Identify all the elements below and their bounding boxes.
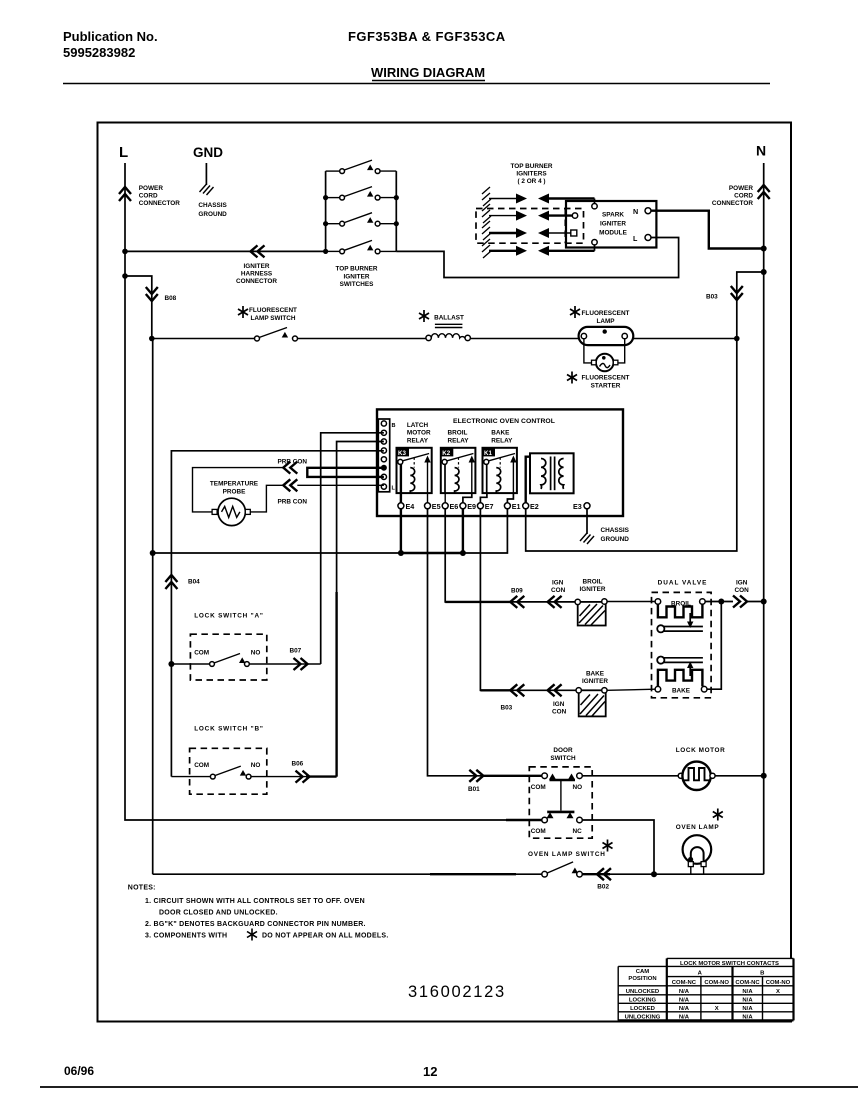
svg-text:A: A (698, 971, 703, 977)
spark igniter module box (566, 201, 656, 248)
svg-text:IGNITERS: IGNITERS (516, 171, 547, 178)
svg-text:X: X (776, 989, 780, 995)
wire valve outputs tie (705, 602, 733, 690)
lock switch B (171, 766, 336, 779)
asterisk ballast (419, 310, 429, 322)
wire E4 down to bus (400, 509, 402, 553)
diagram border (98, 123, 792, 1022)
svg-text:COM-NC: COM-NC (672, 980, 697, 986)
junction B03 branch on N rail (761, 269, 767, 275)
EOC terminal E5 (425, 503, 431, 509)
svg-text:BROIL: BROIL (671, 600, 691, 607)
lock switch A (171, 654, 320, 667)
wire switch to B02 (582, 873, 610, 875)
svg-text:RELAY: RELAY (448, 437, 470, 444)
chassis ground symbol top (200, 184, 214, 195)
svg-text:WIRING DIAGRAM: WIRING DIAGRAM (371, 65, 485, 80)
svg-text:E3: E3 (573, 502, 582, 511)
asterisk oven lamp switch (603, 840, 613, 852)
footer rule (40, 1086, 858, 1088)
svg-text:B08: B08 (165, 295, 177, 302)
backguard connector B07 chevron (294, 658, 308, 670)
EOC terminal E7 (477, 503, 483, 509)
dashed divider spark module connector (564, 209, 566, 244)
wire E1 down then left: main bus (153, 509, 508, 553)
svg-text:RELAY: RELAY (407, 437, 429, 444)
top burner igniter switch 4 (326, 240, 397, 253)
svg-text:B: B (392, 423, 396, 429)
svg-text:TOP BURNER: TOP BURNER (510, 163, 552, 170)
svg-text:B03: B03 (706, 294, 718, 301)
top burner igniter switch 3 (326, 213, 397, 226)
svg-text:UNLOCKING: UNLOCKING (625, 1015, 661, 1021)
svg-text:FLUORESCENT: FLUORESCENT (582, 310, 630, 317)
svg-text:B01: B01 (468, 786, 480, 793)
svg-text:TEMPERATURE: TEMPERATURE (210, 481, 259, 488)
power cord connector L chevron (119, 187, 131, 201)
spark module terminal row1 (592, 204, 597, 209)
fluorescent lamp (579, 327, 634, 345)
wire oven lamp line (153, 873, 542, 875)
svg-text:06/96: 06/96 (64, 1064, 94, 1078)
wire E5 to door switch COM (428, 509, 542, 776)
top burner igniter switch 2 (326, 187, 397, 200)
lock motor switch contacts table (618, 958, 793, 1020)
EOC terminal E4 (398, 503, 404, 509)
svg-text:B04: B04 (188, 579, 200, 586)
svg-text:CON: CON (735, 587, 750, 594)
svg-text:12: 12 (423, 1064, 437, 1079)
backguard connector B02 chevron (597, 868, 611, 880)
oven lamp (683, 835, 712, 874)
door switch dashed box (529, 767, 592, 838)
EOC terminal strip (378, 419, 395, 492)
dual valve bake plunger (657, 657, 703, 664)
svg-text:PRB CON: PRB CON (278, 459, 308, 466)
svg-text:B02: B02 (597, 884, 609, 891)
spark module terminal row4 (592, 240, 597, 245)
svg-text:K1: K1 (484, 450, 492, 457)
svg-text:COM: COM (531, 784, 546, 791)
svg-text:DUAL VALVE: DUAL VALVE (658, 580, 708, 587)
svg-text:LOCKED: LOCKED (630, 1006, 655, 1012)
svg-text:FLUORESCENT: FLUORESCENT (582, 375, 630, 382)
svg-text:CORD: CORD (734, 193, 753, 200)
dashed box optional igniters (476, 209, 584, 244)
EOC terminal E1 (504, 503, 510, 509)
chassis ground symbol E3 (580, 533, 594, 544)
wire E6 to broil igniter line (445, 509, 578, 602)
svg-text:LOCKING: LOCKING (629, 998, 657, 1004)
wire t4 to lock switches supply B04 (171, 451, 384, 777)
svg-text:FGF353BA & FGF353CA: FGF353BA & FGF353CA (348, 29, 506, 44)
svg-text:NO: NO (251, 650, 261, 657)
svg-text:E9: E9 (467, 502, 476, 511)
svg-text:LATCH: LATCH (407, 422, 429, 429)
rail junction dots (323, 195, 328, 200)
svg-text:1. CIRCUIT SHOWN WITH ALL CONT: 1. CIRCUIT SHOWN WITH ALL CONTROLS SET T… (145, 898, 365, 905)
wire B02 to N rail corner (610, 873, 764, 875)
door switch upper pole (542, 773, 583, 780)
igniter connector IGN CON chevron output (733, 596, 747, 608)
wire row4 to spark module L (396, 238, 678, 278)
dual valve broil solenoid (655, 599, 705, 628)
spark module terminal row2 (572, 213, 577, 218)
svg-text:BROIL: BROIL (583, 579, 603, 586)
top burner igniter switches right rail (395, 171, 397, 251)
svg-text:5995283982: 5995283982 (63, 45, 135, 60)
wire L rail vertical down to door-switch bottom line (125, 163, 542, 820)
svg-text:N: N (633, 207, 638, 216)
svg-text:IGNITER: IGNITER (582, 678, 608, 685)
wire spark module N to N rail (651, 211, 764, 249)
probe connector PRB CON upper chevron (283, 462, 297, 474)
svg-text:X: X (715, 1006, 719, 1012)
top burner igniter 4 (482, 239, 595, 258)
svg-text:N/A: N/A (742, 998, 753, 1004)
svg-text:BAKE: BAKE (586, 670, 605, 677)
svg-text:CAM: CAM (636, 969, 650, 975)
svg-text:E7: E7 (485, 502, 494, 511)
backguard connector B04 chevron (165, 575, 177, 589)
junction bus x E4 (398, 550, 404, 556)
backguard connector B03 chevron bake (510, 684, 524, 696)
svg-text:LOCK SWITCH "B": LOCK SWITCH "B" (194, 726, 264, 733)
door switch actuator (560, 780, 562, 811)
asterisk in note 3 (247, 929, 257, 941)
wire probe lower to terminal t8 (297, 484, 384, 486)
junction L x row4 (122, 249, 128, 255)
svg-text:IGN: IGN (552, 580, 564, 587)
wire E9 down to bus (462, 509, 464, 553)
wire switch to ballast (298, 338, 426, 340)
svg-text:N/A: N/A (679, 998, 690, 1004)
svg-text:COM: COM (194, 762, 209, 769)
wire transformer to E2 (526, 457, 530, 503)
lock motor (678, 762, 715, 790)
wire broil igniter to dual valve (607, 601, 655, 603)
igniter connector IGN CON chevron broil (548, 596, 562, 608)
svg-text:N/A: N/A (742, 1015, 753, 1021)
backguard connector B09 chevron (510, 596, 524, 608)
EOC terminal E6 (442, 503, 448, 509)
svg-text:B03: B03 (501, 705, 513, 712)
svg-text:CORD: CORD (139, 193, 158, 200)
svg-text:HARNESS: HARNESS (241, 271, 273, 278)
svg-text:E4: E4 (406, 502, 415, 511)
wire lock motor to N rail (715, 775, 764, 777)
junction valve output x N rail (761, 599, 767, 605)
svg-text:UNLOCKED: UNLOCKED (626, 989, 659, 995)
svg-text:NO: NO (573, 784, 583, 791)
backguard connector B08 chevron (146, 287, 158, 301)
svg-text:LOCK MOTOR SWITCH CONTACTS: LOCK MOTOR SWITCH CONTACTS (680, 961, 779, 967)
svg-text:B07: B07 (290, 648, 302, 655)
probe connector PRB CON lower chevron (283, 479, 297, 491)
svg-text:B: B (760, 971, 764, 977)
svg-text:COM-NO: COM-NO (704, 980, 729, 986)
asterisk fluorescent lamp (570, 306, 580, 318)
junction N wire on N rail (761, 246, 767, 252)
backguard connector B01 chevron (469, 770, 483, 782)
fluorescent starter (592, 354, 618, 372)
junction B08 x fluorescent line (149, 336, 155, 342)
svg-text:LOCK MOTOR: LOCK MOTOR (676, 747, 726, 754)
lock switch A dashed box (190, 634, 266, 680)
svg-text:N/A: N/A (742, 989, 753, 995)
asterisk fluorescent lamp switch (238, 306, 248, 318)
svg-text:DO NOT APPEAR ON ALL MODELS.: DO NOT APPEAR ON ALL MODELS. (262, 933, 389, 940)
svg-text:STARTER: STARTER (591, 383, 621, 390)
svg-text:DOOR: DOOR (553, 747, 573, 754)
wire t3 to lock switch B NO (337, 442, 384, 777)
backguard connector B03 chevron top (731, 286, 743, 300)
svg-text:CONNECTOR: CONNECTOR (712, 200, 753, 207)
electronic oven control box (377, 409, 623, 516)
svg-text:FLUORESCENT: FLUORESCENT (249, 307, 297, 314)
oven lamp switch (542, 862, 583, 877)
svg-text:K3: K3 (398, 450, 406, 457)
junction lock motor x N rail (761, 773, 767, 779)
asterisk oven lamp (713, 809, 723, 821)
svg-text:NOTES:: NOTES: (128, 885, 156, 892)
ballast (426, 324, 471, 340)
svg-text:IGN: IGN (736, 580, 748, 587)
svg-text:L: L (392, 486, 396, 492)
svg-text:2. BG"K" DENOTES BACKGUARD CON: 2. BG"K" DENOTES BACKGUARD CONNECTOR PIN… (145, 921, 366, 928)
svg-text:CON: CON (552, 709, 567, 716)
wire E3 to chassis ground (586, 509, 588, 534)
svg-text:IGNITER: IGNITER (344, 273, 370, 280)
svg-text:SWITCHES: SWITCHES (340, 281, 374, 288)
svg-text:TOP BURNER: TOP BURNER (335, 266, 377, 273)
junction L branch to B08 (122, 273, 128, 279)
dual valve dashed box (652, 592, 712, 697)
svg-text:COM-NO: COM-NO (766, 980, 791, 986)
junction valve output (718, 599, 724, 605)
svg-text:MODULE: MODULE (599, 230, 627, 237)
svg-text:CONNECTOR: CONNECTOR (236, 278, 277, 285)
header rule (63, 83, 770, 85)
svg-text:BROIL: BROIL (448, 430, 468, 437)
svg-text:DOOR CLOSED AND UNLOCKED.: DOOR CLOSED AND UNLOCKED. (159, 910, 278, 917)
broil igniter (575, 599, 607, 626)
lock switch B dashed box (190, 748, 267, 794)
relay K3 (397, 448, 432, 493)
svg-text:BAKE: BAKE (491, 430, 510, 437)
svg-text:CONNECTOR: CONNECTOR (139, 200, 180, 207)
wire door NO to lock motor (582, 775, 678, 777)
wire branch to B08 vertical (125, 276, 152, 339)
top burner igniter switch 1 (326, 160, 397, 173)
svg-text:CON: CON (551, 587, 566, 594)
bake igniter (576, 688, 607, 717)
wire t2 to lock switch A NO (321, 433, 384, 664)
junction bus x B08 rail (150, 550, 156, 556)
svg-text:B09: B09 (511, 588, 523, 595)
svg-text:COM: COM (194, 650, 209, 657)
wire B08 rail vertical (fluor line to oven lamp line) (152, 339, 154, 875)
top burner igniter 3 (482, 221, 571, 240)
svg-text:N/A: N/A (742, 1006, 753, 1012)
wire bake igniter to dual valve (607, 689, 655, 690)
svg-text:COM-NC: COM-NC (735, 980, 760, 986)
backguard connector B06 chevron (296, 771, 310, 783)
svg-text:CHASSIS: CHASSIS (198, 202, 227, 209)
wire probe lower lead (250, 485, 283, 512)
wire ballast to fluorescent lamp (470, 338, 578, 340)
svg-text:IGNITER: IGNITER (244, 263, 270, 270)
wire door NC to oven lamp line (582, 820, 654, 874)
wires lamp to starter (584, 339, 592, 363)
relay K1 (483, 448, 517, 493)
temperature probe (212, 498, 250, 525)
wire top burner row4 / igniter harness line (125, 250, 326, 252)
svg-text:N/A: N/A (679, 1015, 690, 1021)
relay K2 (441, 448, 476, 493)
svg-text:LAMP: LAMP (596, 318, 615, 325)
svg-text:OVEN LAMP SWITCH: OVEN LAMP SWITCH (528, 851, 606, 858)
wire probe upper lead (193, 468, 284, 512)
svg-text:L: L (119, 144, 128, 161)
svg-text:NC: NC (573, 828, 583, 835)
svg-text:3. COMPONENTS WITH: 3. COMPONENTS WITH (145, 933, 227, 940)
EOC terminal E2 (523, 503, 529, 509)
svg-text:GROUND: GROUND (198, 211, 227, 218)
chassis ground stem top (205, 163, 207, 185)
svg-text:GND: GND (193, 145, 223, 160)
svg-text:GROUND: GROUND (601, 536, 630, 543)
dual valve bake solenoid (655, 662, 707, 693)
svg-text:POWER: POWER (729, 185, 754, 192)
svg-text:E2: E2 (530, 502, 539, 511)
svg-text:N/A: N/A (679, 1006, 690, 1012)
svg-text:IGNITER: IGNITER (600, 221, 626, 228)
svg-text:Publication No.: Publication No. (63, 29, 158, 44)
svg-text:SWITCH: SWITCH (550, 755, 576, 762)
top burner igniter 2 (482, 204, 572, 223)
svg-text:L: L (633, 234, 638, 243)
top burner igniter 1 (482, 187, 595, 206)
svg-text:ELECTRONIC OVEN CONTROL: ELECTRONIC OVEN CONTROL (453, 418, 555, 425)
svg-text:BAKE: BAKE (672, 687, 691, 694)
svg-text:RELAY: RELAY (491, 437, 513, 444)
junction lock A tap on B04 rail (168, 661, 174, 667)
svg-text:316002123: 316002123 (408, 983, 506, 1001)
svg-text:B06: B06 (292, 761, 304, 768)
spark module terminal row3 square (571, 230, 577, 236)
asterisk fluorescent starter (567, 372, 577, 384)
svg-text:CHASSIS: CHASSIS (601, 527, 630, 534)
svg-text:BALLAST: BALLAST (434, 315, 464, 322)
wire fluorescent circuit line (152, 338, 255, 340)
door switch lower pole (542, 812, 583, 823)
svg-text:SPARK: SPARK (602, 212, 624, 219)
junction door NC x oven lamp line (651, 871, 657, 877)
wire N rail vertical (763, 163, 765, 874)
junction bus x E9 (460, 550, 466, 556)
igniter connector IGN CON chevron bake (548, 684, 562, 696)
wire E7 to bake igniter line (480, 509, 578, 691)
EOC terminal E9 (460, 503, 466, 509)
svg-text:PROBE: PROBE (223, 488, 246, 495)
svg-text:N: N (756, 143, 766, 159)
svg-text:NO: NO (251, 762, 261, 769)
svg-text:POSITION: POSITION (628, 976, 656, 982)
junction fluorescent line x B03 (734, 336, 740, 342)
svg-text:LAMP SWITCH: LAMP SWITCH (251, 315, 296, 322)
svg-text:MOTOR: MOTOR (407, 430, 431, 437)
wire valve output to N rail (747, 601, 764, 603)
svg-text:E1: E1 (512, 502, 521, 511)
svg-text:K2: K2 (442, 450, 450, 457)
wire probe upper EOC side (thick bracket t6-t7) (307, 468, 384, 477)
fluorescent lamp switch (255, 328, 298, 342)
dual valve broil plunger (657, 625, 703, 632)
svg-text:IGNITER: IGNITER (580, 586, 606, 593)
wire B03 branch vertical (526, 272, 764, 551)
svg-text:POWER: POWER (139, 185, 164, 192)
svg-text:COM: COM (531, 828, 546, 835)
svg-text:E6: E6 (450, 502, 459, 511)
svg-text:OVEN LAMP: OVEN LAMP (676, 824, 720, 831)
transformer (530, 453, 574, 493)
svg-text:( 2 OR 4 ): ( 2 OR 4 ) (517, 178, 545, 185)
svg-text:E5: E5 (432, 502, 441, 511)
svg-text:PRB CON: PRB CON (278, 499, 308, 506)
wire fluorescent lamp to B03 rail (633, 338, 737, 340)
top burner igniter switches left rail (325, 171, 327, 251)
svg-text:IGN: IGN (553, 701, 565, 708)
power cord connector N chevron (758, 185, 770, 199)
svg-text:LOCK SWITCH "A": LOCK SWITCH "A" (194, 613, 264, 620)
igniter harness connector chevron (251, 245, 265, 257)
svg-text:N/A: N/A (679, 989, 690, 995)
